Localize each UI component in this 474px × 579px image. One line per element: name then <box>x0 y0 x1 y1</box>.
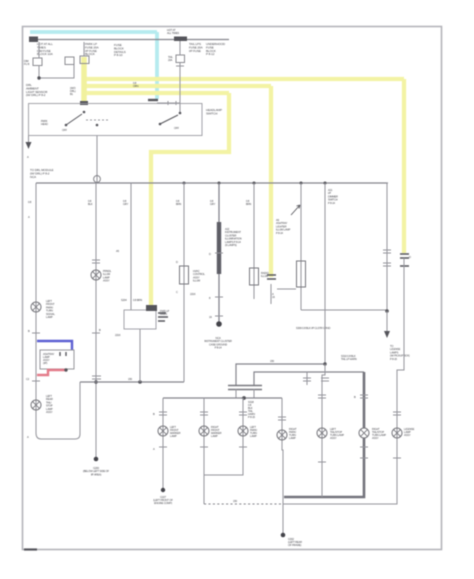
svg-text:LEFTREARTAIL/STOPLAMPASSY: LEFTREARTAIL/STOPLAMPASSY <box>46 394 53 414</box>
C6 tick lower <box>360 447 368 458</box>
svg-text:LEFTTAIL/STOPTURN LAMPASSY: LEFTTAIL/STOPTURN LAMPASSY <box>330 427 344 440</box>
wire x404 continues <box>397 258 404 398</box>
svg-text:C: C <box>176 290 178 294</box>
wire yellow band 3 <box>86 91 229 95</box>
svg-text:A9ASHTRAYLIGHTERILLUM LAMPP 8-: A9ASHTRAYLIGHTERILLUM LAMPP 8-14 <box>276 218 291 235</box>
wire y382 link <box>80 381 184 383</box>
lamp C1 filament <box>160 428 167 435</box>
svg-text:PARK LPFUSE 20AI/P FUSEBLOCK: PARK LPFUSE 20AI/P FUSEBLOCK <box>85 42 99 56</box>
connector tick C2 <box>32 380 40 382</box>
svg-text:A: A <box>153 447 155 451</box>
C6 ticks <box>360 395 368 398</box>
node dot x140 <box>138 380 142 384</box>
svg-text:DIMFU 8: DIMFU 8 <box>24 59 30 66</box>
connector chevrons x387 <box>383 250 391 266</box>
svg-text:150: 150 <box>128 377 133 381</box>
connector tick C1 <box>176 65 184 67</box>
headlamp switch box <box>29 104 203 136</box>
connector tick x96 <box>92 332 100 334</box>
rail B y372 <box>254 372 364 385</box>
wire dashed ground run <box>204 503 283 505</box>
connector ticks x322 <box>321 378 329 381</box>
wire yellow vertical right <box>402 79 406 253</box>
node splice dot rail C <box>242 396 246 400</box>
wire yellow vertical mid-right <box>269 86 273 277</box>
resistor R1 <box>180 266 189 284</box>
svg-text:LEFTFRONTMARKERLAMP: LEFTFRONTMARKERLAMP <box>170 425 181 438</box>
svg-text:D: D <box>176 260 178 264</box>
svg-text:HVACCONTROLASSYILLUM: HVACCONTROLASSYILLUM <box>193 269 206 283</box>
svg-text:150: 150 <box>270 359 275 363</box>
module box M1 <box>40 350 74 369</box>
wire drop x325 <box>324 183 326 364</box>
svg-text:G107(LEFT FRONT OFENGINE COMP): G107(LEFT FRONT OFENGINE COMP) <box>153 495 173 505</box>
circuit C1 vertical <box>162 398 164 489</box>
component glyph x254 <box>250 268 259 285</box>
wire cyan to switch <box>157 102 180 104</box>
wire thick right down <box>284 372 364 497</box>
wire drop x301 <box>300 183 302 310</box>
svg-text:A: A <box>27 155 29 159</box>
svg-text:0.8: 0.8 <box>28 200 32 204</box>
lamp L1 filament <box>33 304 40 311</box>
lamp C4 filament <box>279 432 286 439</box>
svg-text:B: B <box>153 412 155 416</box>
component x271 glyph <box>270 284 272 304</box>
lamp L2 filament <box>33 402 40 409</box>
node fuse block tap <box>29 37 38 43</box>
wire tail fuse vertical <box>179 41 181 113</box>
svg-text:TOLICENSELAMPS(W/ PICKUP BOX)P: TOLICENSELAMPS(W/ PICKUP BOX)P 8-15 <box>390 344 410 361</box>
svg-text:NCAINSTRUMENT CLUSTERCASE GROU: NCAINSTRUMENT CLUSTERCASE GROUNDP 8-14 <box>204 336 232 350</box>
node rail A junction <box>323 362 326 365</box>
connector glyphs right of B1 <box>158 313 168 321</box>
switch S1 link dashes <box>86 119 110 121</box>
connector x404 yellow end <box>400 254 409 266</box>
connector cyan end <box>148 99 158 101</box>
arrowhead x387 <box>384 331 390 338</box>
wire bar pass x254 <box>253 389 255 398</box>
lamp C6 filament <box>361 430 368 437</box>
svg-text:RIGHTPARK/TURNLAMP: RIGHTPARK/TURNLAMP <box>289 427 297 440</box>
stub x307 <box>306 372 308 385</box>
module M1 pins <box>60 352 66 356</box>
switch S2 lever <box>160 115 178 124</box>
svg-text:G302(LEFT REAROF FRAME): G302(LEFT REAROF FRAME) <box>288 537 302 547</box>
node junction y382 <box>94 380 98 384</box>
svg-text:0.8ORN: 0.8ORN <box>133 81 139 88</box>
C7 ticks <box>393 412 401 415</box>
node red end dot <box>64 368 67 371</box>
lamp C2 filament <box>201 428 208 435</box>
lamp C7 filament <box>394 430 401 437</box>
svg-text:LEFTPARK/TURNLAMP: LEFTPARK/TURNLAMP <box>250 425 257 438</box>
svg-text:D: D <box>409 255 411 259</box>
svg-text:TAIL20A: TAIL20A <box>168 55 173 62</box>
svg-text:S310 0.8 BLKTAIL LP HARN: S310 0.8 BLKTAIL LP HARN <box>341 354 357 361</box>
connector x271 yellow end <box>267 275 276 279</box>
wire yellow band 2 <box>86 84 271 88</box>
svg-text:A: A <box>28 215 30 219</box>
svg-text:B: B <box>354 395 356 399</box>
wire link x277 to x297 <box>277 288 296 290</box>
svg-text:C2: C2 <box>26 377 30 381</box>
svg-text:UNDERHOODFUSEBLOCKP 8-12: UNDERHOODFUSEBLOCKP 8-12 <box>206 42 226 56</box>
component box x301 <box>297 261 306 287</box>
lamp L1 left front park <box>31 302 41 312</box>
lamp L3 prndl <box>91 270 101 280</box>
connector bar C2 inline <box>228 386 262 390</box>
switch S2 contacts <box>159 123 162 126</box>
wire switch output drop <box>96 136 98 184</box>
node yellow pin at box <box>80 101 88 105</box>
lamp C5 <box>317 428 327 438</box>
svg-text:0.8 BRN: 0.8 BRN <box>133 298 142 302</box>
svg-text:0.8BRN: 0.8BRN <box>176 199 181 206</box>
connector tick y297 <box>215 296 223 298</box>
wire left lamp column <box>36 183 80 439</box>
frame border <box>23 27 442 550</box>
ground C1 dot <box>161 488 165 492</box>
svg-text:TAIL LPSFUSE 20AI/P FUSE: TAIL LPSFUSE 20AI/P FUSE <box>189 42 203 53</box>
node junction dot <box>37 76 40 79</box>
wire fuse link <box>39 42 74 78</box>
svg-text:RIGHTFRONTMARKERLAMP: RIGHTFRONTMARKERLAMP <box>211 425 222 438</box>
svg-text:A22INSTRUMENTCLUSTERILLUMINATI: A22INSTRUMENTCLUSTERILLUMINATIONLAMPS P … <box>225 227 242 247</box>
svg-text:ASHTRAYLAMPASSY(I/P): ASHTRAYLAMPASSY(I/P) <box>43 352 55 365</box>
lamp L2 left rear <box>31 400 41 410</box>
node yellow pin blob <box>146 305 157 311</box>
C2 ticks <box>200 412 208 415</box>
C2 tick lower <box>200 446 208 448</box>
lamp C4 <box>277 430 287 440</box>
lamp C1 <box>158 426 168 436</box>
C7 tick lower <box>393 457 401 459</box>
svg-text:16: 16 <box>209 315 212 319</box>
C5 ticks <box>318 395 326 398</box>
svg-text:150: 150 <box>233 499 238 503</box>
arrowhead <box>26 142 32 149</box>
svg-text:A: A <box>27 435 29 439</box>
switch S1 contacts <box>65 124 68 127</box>
lamp L3 filament <box>93 272 100 279</box>
node splice circle on bus <box>94 176 101 183</box>
C3 ticks <box>239 412 247 415</box>
connector tick B <box>32 332 40 334</box>
svg-text:A21I/PDIMMERSWITCHP 8-14: A21I/PDIMMERSWITCHP 8-14 <box>328 188 338 205</box>
svg-text:(W/ODRL)B1: (W/ODRL)B1 <box>70 86 76 96</box>
svg-text:FUSEBLOCKDETAILSP 8-10: FUSEBLOCKDETAILSP 8-10 <box>114 43 126 57</box>
svg-text:HOT ATALL TIMES: HOT ATALL TIMES <box>167 28 179 35</box>
wire yellow switch feed <box>81 57 87 104</box>
off page arrow left <box>28 136 30 143</box>
switch S1 lever <box>66 114 82 125</box>
dimmer arrow <box>291 205 300 215</box>
wire bus right corner drop <box>387 183 388 311</box>
svg-text:0.8GRY: 0.8GRY <box>210 199 216 206</box>
wire main bus <box>36 182 388 184</box>
svg-text:RIGHTTAIL/STOPTURN LAMPASSY: RIGHTTAIL/STOPTURN LAMPASSY <box>372 427 386 440</box>
lamp C3 <box>238 426 248 436</box>
lamp C6 on thick wire <box>359 428 369 438</box>
C1 ticks <box>159 412 167 415</box>
svg-text:D: D <box>209 252 211 256</box>
svg-text:2216: 2216 <box>190 292 196 296</box>
connector C100 blob <box>174 37 187 42</box>
wire yellow jog down-left <box>151 93 229 308</box>
svg-text:S3180.8BLKTAILHARNP 8-15: S3180.8BLKTAILHARNP 8-15 <box>248 400 256 419</box>
svg-text:LICENSELAMPASSY: LICENSELAMPASSY <box>404 427 415 437</box>
rail A y364 <box>236 364 325 385</box>
svg-text:OFF: OFF <box>62 128 67 132</box>
wire yellow band 1 <box>86 77 404 81</box>
C4 ticks <box>278 417 286 420</box>
C5 tick lower <box>318 461 326 463</box>
ground G200 dot <box>94 457 99 462</box>
node dot x387 junction <box>385 309 389 313</box>
node bus dots <box>183 182 186 185</box>
wire drop x254 <box>253 183 255 299</box>
frame tick mark bottom left <box>24 548 37 550</box>
circuit C4 vertical <box>282 398 283 534</box>
wire x301 corner to right <box>301 309 386 311</box>
wire red return <box>37 370 65 375</box>
C3 tick lower <box>239 446 247 448</box>
circuit C7 vertical <box>283 398 397 504</box>
lamp C2 <box>199 426 209 436</box>
connector tick y253 <box>215 252 223 254</box>
svg-text:A5: A5 <box>116 249 120 253</box>
connector tick y316 <box>215 315 223 317</box>
svg-text:PARKHEAD: PARKHEAD <box>41 119 48 126</box>
svg-text:PRNDLILLUMLAMPASSY: PRNDLILLUMLAMPASSY <box>103 269 112 283</box>
svg-text:2216: 2216 <box>115 333 121 337</box>
svg-text:DRLAMBIENTLIGHT SENSOR(W/ DRL): DRLAMBIENTLIGHT SENSOR(W/ DRL) P 8-2 <box>26 83 48 97</box>
wire hot bus top <box>30 39 229 41</box>
fuse F2 <box>65 57 74 65</box>
svg-text:B: B <box>28 329 30 333</box>
svg-text:0.8BLK: 0.8BLK <box>88 199 93 206</box>
lamp C5 filament <box>319 430 326 437</box>
circuit C5 vertical <box>322 364 325 497</box>
tick marks on link <box>168 101 176 105</box>
svg-text:OFF: OFF <box>174 126 179 130</box>
off page arrow down <box>386 311 388 331</box>
circuit C3 vertical <box>204 398 243 475</box>
wire switch column to ground <box>95 183 97 459</box>
connector ticks on x96 <box>92 260 100 263</box>
wire fuse F3 top stub <box>83 42 85 56</box>
wire drop x131 <box>130 183 132 310</box>
svg-text:G200(BELOW LEFT SIDE OFI/P ARE: G200(BELOW LEFT SIDE OFI/P AREA) <box>83 466 110 476</box>
connector ticks y377 <box>92 376 101 379</box>
svg-text:A16: A16 <box>272 292 275 299</box>
C1 tick lower <box>159 446 167 448</box>
circuit C2 vertical <box>203 398 205 504</box>
svg-text:FWD LPHARN: FWD LPHARN <box>160 309 169 316</box>
wire drop x184 <box>183 183 185 382</box>
lamp C7 <box>392 428 402 438</box>
connector ticks x307 <box>303 378 311 381</box>
ground G302 dot <box>281 533 286 538</box>
wire instrument cluster thick <box>218 183 220 323</box>
wire cyan hot feed horizontal <box>30 30 157 34</box>
svg-text:S204: S204 <box>121 298 127 302</box>
svg-text:B: B <box>99 328 101 332</box>
wire cyan vertical drop <box>155 32 159 99</box>
fuse F1 <box>33 58 42 66</box>
node cluster end dot <box>216 321 222 327</box>
wire blue dome feed <box>37 341 72 350</box>
module box B1 <box>124 310 156 329</box>
svg-text:LEFTFRONTPARK/TURNSIGNALLAMP: LEFTFRONTPARK/TURNSIGNALLAMP <box>46 299 55 319</box>
rail C y398 <box>163 397 282 399</box>
svg-text:0.8GRY: 0.8GRY <box>123 199 129 206</box>
svg-text:HEADLAMPSWITCH: HEADLAMPSWITCH <box>206 108 222 115</box>
svg-text:8: 8 <box>209 296 211 300</box>
svg-text:TO DRL MODULE(W/ DRL) P 8-2NC: TO DRL MODULE(W/ DRL) P 8-2NCA <box>30 168 54 179</box>
fuse F4 tail <box>176 55 185 63</box>
wire B1 bottom drop <box>139 329 141 382</box>
wire bar pass x236 <box>235 389 237 398</box>
lamp C3 filament <box>240 428 247 435</box>
svg-text:0.8BRN: 0.8BRN <box>246 199 251 206</box>
fuse F3 park <box>80 56 89 64</box>
